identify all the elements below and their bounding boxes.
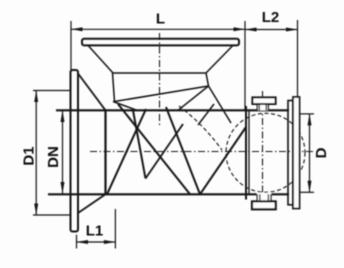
funnel left side (88, 45, 113, 73)
dimension L2 line (245, 29, 298, 31)
stub line upper right (198, 104, 214, 125)
top bolt cap (252, 97, 275, 104)
dimension D1 extension top (33, 90, 71, 92)
right flange neck (288, 101, 293, 205)
dimension L arrow right (234, 27, 246, 31)
bonnet bottom tilted line (115, 86, 209, 102)
dimension DN line (62, 111, 64, 194)
svg-text:L: L (156, 11, 165, 28)
hidden passage dashed curve (179, 106, 222, 150)
svg-text:D1: D1 (21, 146, 38, 165)
dimension D arrow top (308, 114, 312, 126)
dimension D extension bottom (300, 191, 315, 193)
dimension L1 tick right (114, 209, 116, 249)
dimension D line (309, 114, 311, 192)
bottom bolt legs (256, 194, 258, 201)
svg-text:L1: L1 (86, 223, 104, 240)
dimension D extension top (300, 113, 315, 115)
joint face second line (248, 110, 250, 194)
dimension L extension line left (70, 21, 72, 72)
dimension D arrow bottom (308, 181, 312, 193)
interior diagonal S1b (133, 110, 146, 178)
cone upper line (78, 74, 106, 111)
dimension L1 arrow right (104, 240, 116, 244)
pipe body top line (56, 109, 289, 111)
top bolt legs (256, 104, 258, 110)
dimension L2 extension line right (297, 20, 299, 97)
interior diagonal S3 (166, 107, 200, 194)
svg-text:L2: L2 (262, 9, 280, 26)
dimension D1 line (35, 91, 37, 216)
dimension L1 arrow left (77, 240, 89, 244)
pipe body left edge (104, 110, 106, 194)
interior diagonal S1 (107, 109, 146, 194)
dimension L arrow left (71, 27, 83, 31)
centerline vertical branch axis (159, 33, 161, 127)
svg-text:DN: DN (45, 146, 62, 168)
centerline vertical cover axis (262, 91, 264, 212)
dimension L1 tick left (76, 235, 78, 249)
bonnet fan line right inner (178, 86, 209, 110)
bonnet top line (113, 72, 207, 74)
top flange bar (82, 39, 239, 46)
bonnet left edge (113, 73, 115, 102)
dimension DN arrow top (61, 111, 65, 123)
funnel right side (206, 45, 233, 73)
dimension D1 arrow top (34, 91, 38, 103)
centerline horizontal main axis (90, 151, 313, 153)
interior diagonal S4 (200, 127, 246, 194)
svg-text:D: D (313, 147, 330, 158)
dimension DN arrow bottom (61, 182, 65, 194)
dimension D1 arrow bottom (34, 204, 38, 216)
top bolt leg white gap (257, 104, 268, 111)
dimension D1 extension bottom (33, 214, 70, 216)
cone lower line (78, 194, 106, 213)
left flange (71, 70, 79, 232)
bottom bolt cap (252, 201, 276, 209)
pipe body bottom line (48, 193, 289, 195)
dimension L2 extension line left (244, 21, 246, 110)
right flange plate (293, 97, 300, 209)
interior diagonal S2 (118, 104, 190, 194)
dimension L2 arrow left (245, 28, 257, 32)
bonnet fan line left (113, 102, 137, 111)
bonnet fan line right outer (209, 86, 232, 123)
dimension L2 arrow right (286, 28, 298, 32)
bottom bolt leg white gap (257, 193, 271, 202)
dimension L line (71, 28, 245, 30)
dimension L1 line (77, 241, 116, 243)
interior short diagonal S5 (146, 124, 184, 179)
dashed circle cover body (226, 113, 305, 192)
bonnet right edge (206, 73, 209, 86)
joint face line (245, 106, 247, 200)
